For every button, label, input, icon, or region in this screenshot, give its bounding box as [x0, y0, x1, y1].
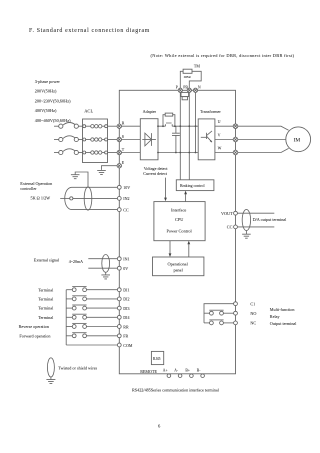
wire U to motor [238, 126, 289, 130]
shield ellipse pot cable [84, 187, 92, 210]
wire C1 to relay common [204, 304, 234, 323]
terminal DI1 [117, 288, 129, 293]
svg-text:10V: 10V [123, 185, 130, 190]
arrow CPU to braking control [184, 191, 187, 202]
svg-text:Interface: Interface [171, 207, 186, 212]
svg-text:External signal: External signal [34, 258, 60, 263]
svg-text:S: S [122, 134, 124, 139]
svg-text:400~460V(50,60Hz): 400~460V(50,60Hz) [35, 118, 71, 124]
terminal CC [117, 207, 129, 212]
potentiometer body [60, 187, 73, 209]
wire to 0V [88, 267, 117, 269]
svg-text:F. Standard external connectio: F. Standard external connection diagram [29, 28, 150, 34]
svg-text:PB: PB [183, 86, 188, 90]
legend ground [46, 377, 55, 384]
legend shield ellipse [47, 358, 54, 377]
precharge resistor [163, 113, 175, 126]
wire W to motor [238, 148, 289, 152]
svg-text:CC: CC [123, 207, 129, 212]
svg-text:ACL: ACL [84, 108, 93, 113]
diode symbol in adapter [142, 133, 156, 146]
terminal DI4 [117, 315, 129, 320]
svg-text:400V(50Hz): 400V(50Hz) [35, 108, 57, 113]
svg-text:D/A output terminal: D/A output terminal [253, 217, 288, 222]
svg-text:Adapter: Adapter [143, 109, 157, 114]
left labels for digital inputs [19, 287, 54, 338]
svg-text:Terminal: Terminal [38, 287, 54, 292]
Adapter rectifier box [140, 119, 158, 160]
svg-text:COM: COM [123, 343, 133, 348]
terminal P [176, 86, 183, 93]
svg-text:200~230V(50,60Hz): 200~230V(50,60Hz) [35, 98, 71, 104]
wire V to motor [238, 139, 286, 141]
Multi-function Relay Output terminal label [270, 307, 297, 326]
Braking control box [176, 180, 214, 191]
3-phase power source label block [35, 79, 71, 124]
terminal NO [234, 311, 257, 316]
wire R to adapter [122, 125, 141, 127]
terminal DI3 [117, 306, 129, 311]
comm terminal B- [201, 374, 205, 378]
ground shield signal [101, 275, 110, 279]
svg-text:U: U [218, 119, 221, 124]
terminal R [117, 121, 125, 129]
svg-text:controller: controller [20, 186, 37, 191]
svg-text:0V: 0V [123, 266, 128, 271]
svg-text:DI1: DI1 [123, 288, 129, 293]
internal DBR block [181, 92, 189, 99]
svg-text:Operational: Operational [168, 262, 189, 267]
svg-text:A+: A+ [163, 368, 168, 372]
terminal 0V [117, 266, 128, 271]
inductor ACL phase S [83, 138, 117, 141]
shield drain to ground [105, 272, 107, 274]
svg-text:REMOTE: REMOTE [140, 369, 157, 374]
svg-text:T: T [122, 147, 125, 152]
wire U [215, 125, 233, 127]
breaker/switch phase S [54, 136, 82, 142]
shield ellipse DA cable [242, 209, 250, 230]
svg-text:5K Ω 1/2W: 5K Ω 1/2W [31, 196, 51, 201]
svg-text:panel: panel [174, 268, 184, 273]
svg-text:FR: FR [123, 334, 128, 339]
main inverter enclosure box [119, 90, 235, 374]
Transformer inverter box [198, 119, 215, 160]
svg-text:Multi-function: Multi-function [270, 307, 296, 312]
Operational panel box [153, 257, 204, 276]
terminal 10V [117, 185, 130, 190]
arrow detect to CPU [164, 178, 167, 202]
svg-text:IN1: IN1 [123, 257, 129, 262]
switch FR [66, 333, 117, 338]
svg-text:W: W [218, 145, 222, 150]
terminal FR [117, 334, 128, 339]
svg-text:A-: A- [174, 368, 179, 372]
wire E to ground [102, 166, 118, 170]
External Operation controller label [20, 181, 53, 191]
comm terminal B+ [190, 374, 194, 378]
terminal NC [234, 321, 257, 326]
svg-text:DBR: DBR [184, 75, 192, 79]
breaker/switch phase T [54, 149, 82, 155]
svg-text:200V(50Hz): 200V(50Hz) [35, 88, 57, 93]
terminal W [233, 150, 238, 155]
svg-text:Terminal: Terminal [38, 306, 54, 311]
svg-text:3-phase power: 3-phase power [35, 79, 61, 84]
external braking resistor DBR [183, 69, 192, 79]
svg-text:Terminal: Terminal [38, 315, 54, 320]
wire P bus down to braking control [179, 92, 181, 179]
wire pot wiper to IN2 [73, 197, 118, 199]
svg-text:R: R [122, 121, 125, 126]
svg-text:CPU: CPU [175, 217, 184, 222]
terminal IN1 [117, 257, 129, 262]
breaker/switch phase R [54, 123, 82, 129]
svg-text:N: N [198, 85, 201, 89]
relay contact NO [204, 310, 234, 315]
svg-text:RR: RR [123, 324, 129, 329]
comm terminal A- [178, 374, 182, 378]
svg-text:DI4: DI4 [123, 315, 129, 320]
Voltage detect / Current detect labels [143, 166, 168, 176]
wire CC out [237, 226, 274, 228]
svg-text:RJ45: RJ45 [153, 357, 161, 361]
inductor ACL phase R [83, 125, 117, 128]
svg-text:E: E [122, 160, 125, 165]
shield drain wire to ground [75, 172, 88, 187]
arrow panel to CPU [187, 241, 190, 257]
bypass contactor on plus rail [165, 123, 172, 126]
terminal COM [117, 343, 132, 348]
svg-text:RS422/485Series communication: RS422/485Series communication interface … [132, 388, 220, 393]
wire COM [66, 344, 117, 346]
wire P to external DBR [180, 71, 183, 88]
svg-text:DI2: DI2 [123, 297, 129, 302]
svg-text:Power Control: Power Control [167, 228, 193, 233]
svg-text:Reverse operation: Reverse operation [19, 324, 50, 329]
inductor ACL phase T [83, 151, 117, 154]
svg-text:C1: C1 [250, 302, 255, 307]
motor IM [286, 127, 311, 152]
terminal V [233, 137, 238, 142]
switch DI4 [66, 314, 117, 319]
wire T to adapter [122, 152, 141, 154]
svg-text:DI3: DI3 [123, 306, 129, 311]
svg-text:Twisted or shield wires: Twisted or shield wires [58, 365, 97, 370]
svg-text:Transformer: Transformer [200, 109, 221, 114]
DC minus rail [158, 152, 198, 154]
wire pot bottom to CC [72, 209, 118, 211]
wire pot top to 10V [72, 186, 118, 188]
svg-text:4~20mA: 4~20mA [69, 259, 83, 264]
svg-text:NO: NO [250, 311, 256, 316]
wire S to adapter [122, 139, 141, 141]
switch RR [66, 323, 117, 328]
comm terminal A+ [167, 374, 171, 378]
terminal VOUT [221, 211, 237, 216]
svg-text:TM: TM [194, 64, 200, 69]
switch DI1 [66, 287, 117, 292]
svg-text:Terminal: Terminal [38, 297, 54, 302]
svg-text:IM: IM [294, 138, 301, 144]
terminal RR [117, 324, 129, 329]
svg-text:NC: NC [250, 321, 256, 326]
svg-text:B-: B- [197, 368, 201, 372]
svg-text:V: V [218, 132, 221, 137]
wire DBR to PB [189, 71, 201, 88]
svg-text:Braking control: Braking control [180, 184, 205, 188]
digital input common bus [65, 290, 67, 345]
terminal DI2 [117, 297, 129, 302]
ACL reactor box [83, 119, 108, 163]
ground at E [97, 170, 106, 174]
terminal E [117, 160, 125, 168]
svg-text:Forward operation: Forward operation [19, 333, 51, 338]
Interface CPU Power Control box [154, 202, 205, 241]
wire N down to DC minus rail [195, 92, 197, 152]
svg-text:Output terminal: Output terminal [270, 321, 297, 326]
svg-text:Relay: Relay [270, 314, 281, 319]
relay contact NC [204, 320, 234, 325]
junction dots on rails [157, 125, 196, 153]
svg-text:Current detect: Current detect [143, 171, 168, 176]
wire VOUT out [237, 212, 274, 214]
terminal T [117, 147, 125, 155]
terminal S [117, 134, 124, 142]
wire V [215, 139, 233, 141]
wire PB bus down to braking control [188, 92, 190, 179]
svg-text:B+: B+ [185, 368, 190, 372]
arrow CPU to panel [169, 241, 172, 257]
terminal PB [183, 86, 191, 93]
terminal N [193, 85, 201, 92]
svg-text:(Note: While external is requi: (Note: While external is required for DB… [151, 53, 295, 59]
svg-text:6: 6 [158, 424, 161, 429]
smoothing capacitor [172, 126, 180, 152]
svg-text:CC: CC [227, 225, 233, 230]
terminal U [233, 124, 238, 129]
svg-text:VOUT: VOUT [221, 211, 233, 216]
comm terminal labels A+ A- B+ B- [163, 368, 201, 372]
IGBT symbol U1 [201, 131, 212, 142]
RJ45 connector box [151, 351, 163, 364]
ground shield DA [242, 234, 251, 238]
shield drain to ground [245, 231, 247, 234]
wire to IN1 [88, 258, 117, 260]
terminal CC analog [227, 225, 238, 230]
svg-text:P: P [176, 86, 178, 90]
shield ellipse signal cable [102, 255, 110, 273]
terminal IN2 [117, 196, 129, 201]
wire W [215, 152, 233, 154]
ground shield pot [71, 175, 80, 179]
DC plus rail [158, 125, 198, 127]
svg-text:IN2: IN2 [123, 196, 129, 201]
terminal C1 [234, 302, 256, 307]
switch DI3 [66, 305, 117, 310]
switch DI2 [66, 296, 117, 301]
